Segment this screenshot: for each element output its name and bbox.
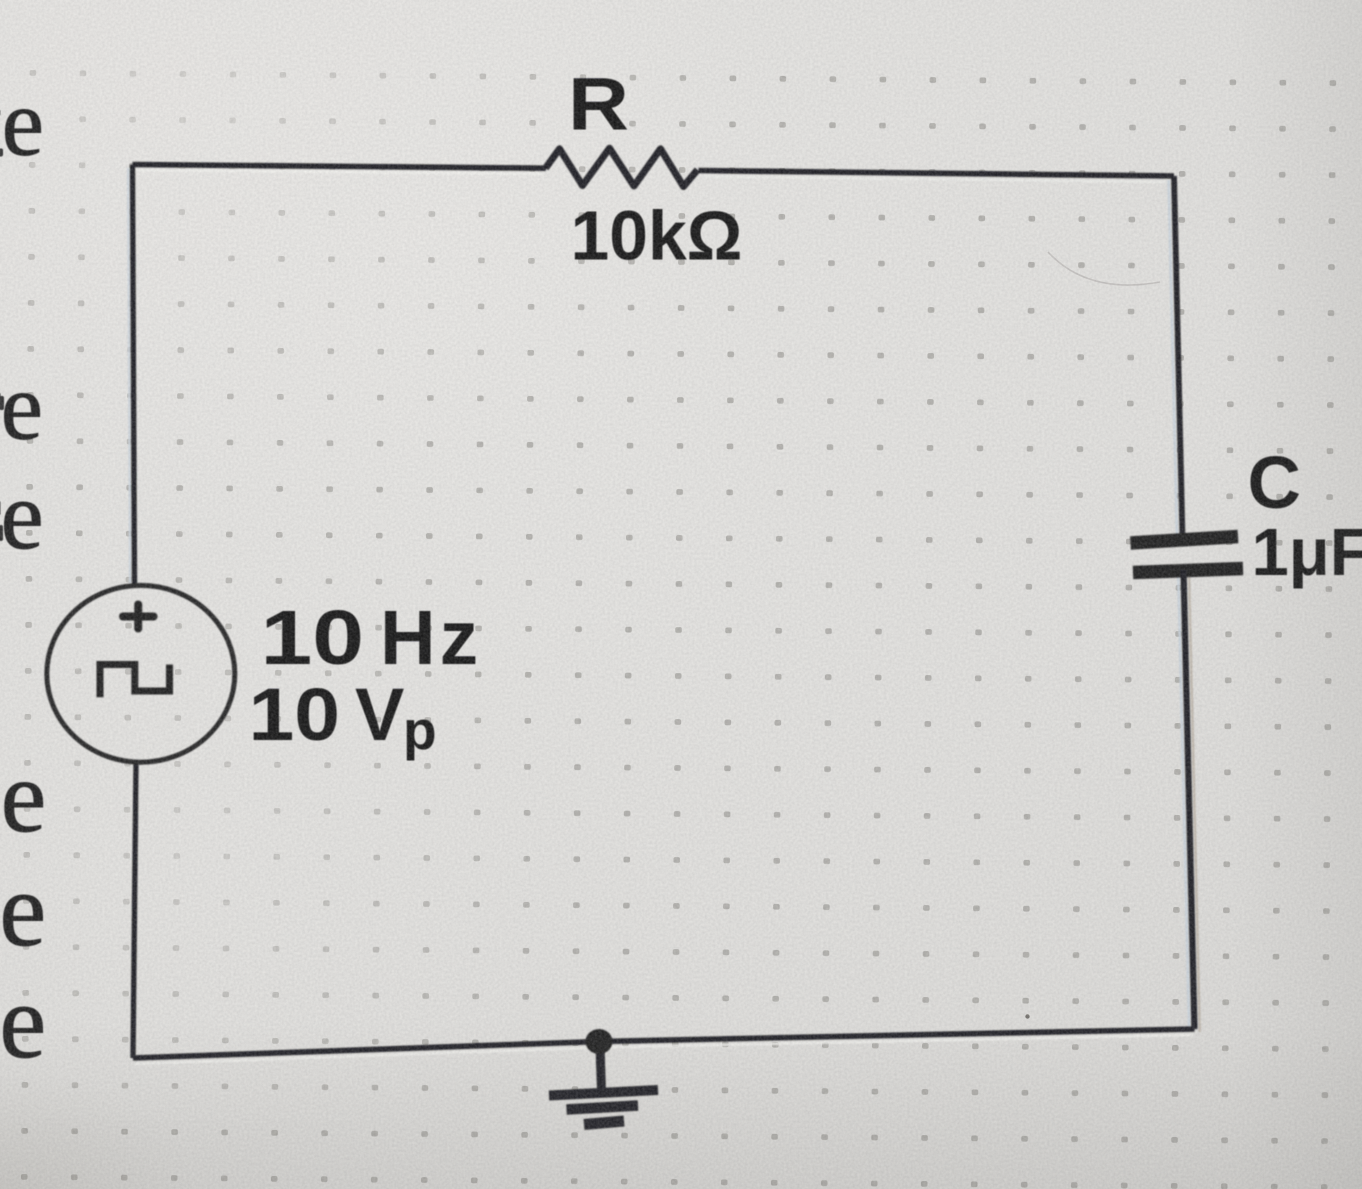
wire top (node between source + and resistor R) [133, 165, 547, 169]
source V1 circle (square wave source 10 Hz 10 Vp) [47, 585, 235, 762]
source plus sign [123, 605, 154, 629]
wire source bottom stub [133, 763, 136, 1059]
faint hair scratch on screen [1048, 252, 1160, 285]
ground bar 1 [549, 1090, 658, 1096]
ground bar 3 [584, 1121, 624, 1125]
capacitor C top plate [1131, 537, 1239, 544]
capacitor C bottom plate [1133, 569, 1243, 573]
ground junction node dot [586, 1029, 613, 1054]
ground bar 2 [567, 1106, 639, 1110]
wire top right (resistor R to capacitor C) [699, 171, 1175, 177]
ground stem [600, 1046, 602, 1091]
leftover letter fragments at page edge [0, 149, 4, 542]
page text fragments at left edge [0, 70, 46, 1081]
dust speck [1025, 1014, 1029, 1018]
wire left (top corner down to source top) [133, 165, 135, 586]
wire halo fringing [128, 168, 1200, 1064]
source square wave symbol [100, 665, 170, 698]
wire bottom (source minus to capacitor, through ground node) [133, 1029, 1195, 1058]
wire right lower (capacitor C to bottom corner) [1184, 570, 1195, 1029]
wire right upper (top corner to capacitor top plate) [1174, 176, 1183, 538]
resistor R [546, 148, 698, 186]
